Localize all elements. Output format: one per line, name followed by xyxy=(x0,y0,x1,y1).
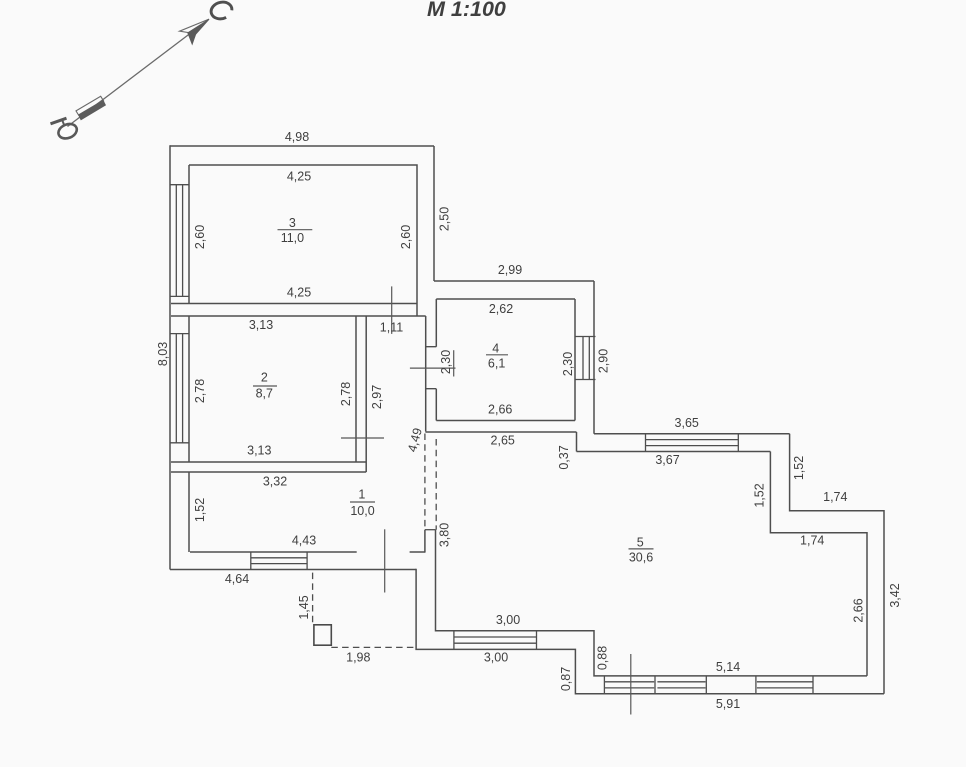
svg-text:4,64: 4,64 xyxy=(225,572,249,586)
svg-text:2,66: 2,66 xyxy=(852,598,866,622)
wall rooms2-1 lower line xyxy=(171,471,366,473)
room 4 bottom inner xyxy=(436,420,575,422)
svg-text:2,60: 2,60 xyxy=(193,225,207,249)
room5 bottom outer xyxy=(416,569,884,694)
room 1 bottom inner with door gap xyxy=(190,551,425,553)
south letter Yu bar xyxy=(51,118,67,124)
north arrow head xyxy=(180,19,210,34)
svg-text:1,98: 1,98 xyxy=(346,651,370,665)
north arrow feather outline xyxy=(76,96,104,115)
svg-text:3,80: 3,80 xyxy=(437,523,451,547)
wall outer right upper xyxy=(433,146,435,281)
svg-text:2,90: 2,90 xyxy=(597,349,611,373)
window room1 bottom xyxy=(251,552,307,570)
room 1 left wall xyxy=(188,472,190,552)
jamb of dashed opening xyxy=(425,529,436,531)
south letter Yu link xyxy=(63,121,65,126)
room 4 box right xyxy=(574,299,576,421)
north arrow feather fill xyxy=(78,100,106,121)
wall 2,99 outer xyxy=(434,280,594,282)
step 0,37 xyxy=(576,432,578,452)
svg-text:8,03: 8,03 xyxy=(156,342,170,366)
window room3 left xyxy=(170,185,189,297)
svg-text:1,45: 1,45 xyxy=(297,595,311,619)
svg-text:2,62: 2,62 xyxy=(489,302,513,316)
room5 bottom inner xyxy=(436,530,868,676)
svg-text:3,00: 3,00 xyxy=(484,651,508,665)
svg-text:2,97: 2,97 xyxy=(370,385,384,409)
corridor left wall xyxy=(365,316,367,472)
tick at bottom wall xyxy=(630,654,632,715)
svg-text:10,0: 10,0 xyxy=(350,504,374,518)
svg-text:1,52: 1,52 xyxy=(752,483,766,507)
svg-text:4,25: 4,25 xyxy=(287,286,311,300)
window room4 right xyxy=(575,337,596,380)
svg-text:4,25: 4,25 xyxy=(287,170,311,184)
svg-text:2,30: 2,30 xyxy=(561,352,575,376)
window 3,65 room5 top xyxy=(646,434,739,452)
room5 top inner xyxy=(577,451,771,453)
svg-text:4: 4 xyxy=(492,342,499,356)
svg-text:1,74: 1,74 xyxy=(823,490,847,504)
svg-text:2,30: 2,30 xyxy=(439,350,453,374)
svg-text:5,91: 5,91 xyxy=(716,697,740,711)
svg-text:2,50: 2,50 xyxy=(438,207,452,231)
svg-text:0,37: 0,37 xyxy=(557,445,571,469)
room 4 door jambs xyxy=(426,347,437,389)
windows room5 bottom jambs xyxy=(604,676,813,694)
dashed opening left line xyxy=(424,434,426,530)
svg-text:4,98: 4,98 xyxy=(285,130,309,144)
wall rooms2-1 upper line xyxy=(171,461,366,463)
svg-text:2,78: 2,78 xyxy=(339,382,353,406)
svg-text:0,88: 0,88 xyxy=(595,646,609,670)
svg-text:3,67: 3,67 xyxy=(655,453,679,467)
wall right of room4 outer xyxy=(593,281,595,434)
tick at 1,11 opening xyxy=(391,286,393,334)
windows room5 bottom hatch lines xyxy=(604,682,813,688)
svg-text:5: 5 xyxy=(637,536,644,550)
room 4 box left with door gap xyxy=(435,299,437,421)
svg-text:6,1: 6,1 xyxy=(488,357,505,371)
tick at room1 door xyxy=(384,529,386,592)
svg-text:1: 1 xyxy=(358,488,365,502)
window room2 left xyxy=(170,334,189,443)
svg-text:11,0: 11,0 xyxy=(281,231,304,245)
svg-text:3,65: 3,65 xyxy=(675,416,699,430)
svg-text:3,13: 3,13 xyxy=(249,318,273,332)
north arrow shaft xyxy=(68,20,209,127)
svg-text:4,43: 4,43 xyxy=(292,534,316,548)
svg-text:3: 3 xyxy=(289,216,296,230)
tick bar in left 2,30 label xyxy=(453,350,455,376)
dashed line 1,98 xyxy=(331,646,416,648)
tick between 2,78 and 2,97 xyxy=(341,437,384,439)
south letter Yu ring xyxy=(56,121,79,141)
flue square xyxy=(314,625,331,645)
svg-text:2,60: 2,60 xyxy=(399,225,413,249)
wall room4-room5 bottom face xyxy=(425,431,576,433)
svg-text:2,99: 2,99 xyxy=(498,263,522,277)
svg-text:3,42: 3,42 xyxy=(888,583,902,607)
room 2 box sides xyxy=(189,316,356,462)
room5 top outer xyxy=(594,433,790,435)
svg-text:3,00: 3,00 xyxy=(496,613,520,627)
dashed opening right line xyxy=(435,439,437,530)
svg-text:1,52: 1,52 xyxy=(792,456,806,480)
svg-text:1,11: 1,11 xyxy=(380,321,403,335)
wall rooms3-2 lower line xyxy=(171,315,426,317)
svg-text:30,6: 30,6 xyxy=(629,551,653,565)
window 3,00 room5 bottom-left xyxy=(454,631,537,650)
room 1 bottom outer xyxy=(170,569,416,571)
svg-text:5,14: 5,14 xyxy=(716,660,740,674)
svg-text:0,87: 0,87 xyxy=(559,667,573,691)
wall outer left xyxy=(169,145,171,569)
dashed stub vertical 1,45 xyxy=(312,573,314,625)
svg-text:3,32: 3,32 xyxy=(263,475,287,489)
svg-text:3,13: 3,13 xyxy=(247,444,271,458)
room 3 box xyxy=(189,165,417,316)
svg-text:1,52: 1,52 xyxy=(193,498,207,522)
svg-text:8,7: 8,7 xyxy=(256,387,273,401)
north letter C xyxy=(209,0,234,21)
room5 right steps outer xyxy=(790,434,884,694)
svg-text:1,74: 1,74 xyxy=(800,534,824,548)
wall outer top xyxy=(170,145,434,147)
wall piece below jamb xyxy=(424,530,426,553)
wall rooms3-2 upper line xyxy=(171,303,417,305)
svg-text:2,78: 2,78 xyxy=(193,379,207,403)
svg-text:2,66: 2,66 xyxy=(488,403,512,417)
svg-text:М 1:100: М 1:100 xyxy=(427,0,506,21)
wall 2,99 inner xyxy=(436,298,575,300)
svg-text:2,65: 2,65 xyxy=(491,434,515,448)
tick at room4 door xyxy=(410,367,456,369)
corridor right wall xyxy=(425,316,427,431)
svg-text:2: 2 xyxy=(261,371,268,385)
room5 right steps inner xyxy=(770,452,867,676)
